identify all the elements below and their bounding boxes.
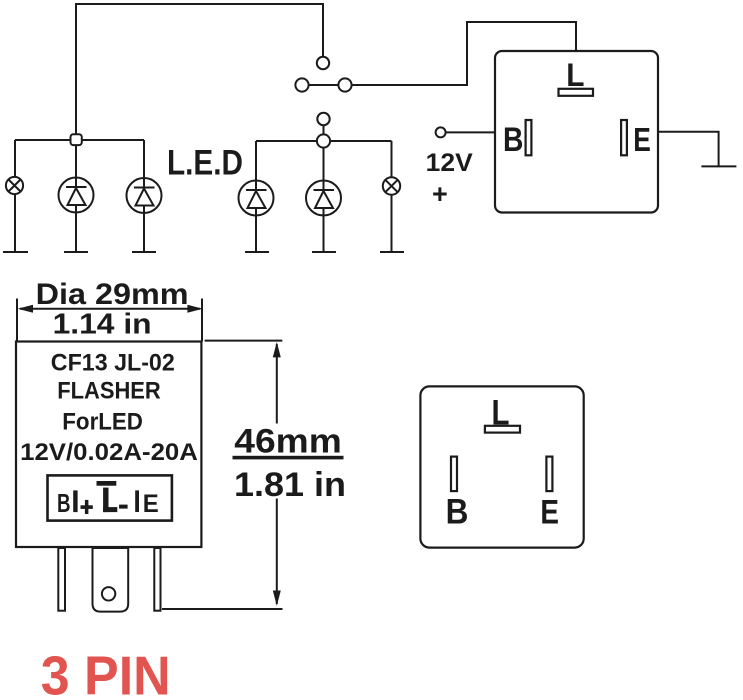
svg-text:E: E	[143, 490, 159, 518]
svg-text:L.E.D: L.E.D	[167, 144, 243, 183]
svg-text:E: E	[633, 121, 651, 158]
svg-text:CF13 JL-02: CF13 JL-02	[51, 350, 175, 377]
svg-text:1.14 in: 1.14 in	[53, 309, 152, 341]
svg-text:46mm: 46mm	[234, 423, 341, 461]
svg-text:+: +	[432, 179, 448, 209]
svg-text:3 PIN: 3 PIN	[41, 645, 171, 700]
svg-text:ForLED: ForLED	[62, 408, 143, 435]
svg-text:L: L	[492, 394, 510, 433]
svg-text:L: L	[566, 57, 584, 93]
svg-text:1.81 in: 1.81 in	[234, 466, 346, 504]
svg-text:FLASHER: FLASHER	[57, 378, 161, 405]
svg-text:12V: 12V	[426, 149, 473, 177]
svg-text:12V/0.02A-20A: 12V/0.02A-20A	[20, 439, 198, 466]
svg-text:B: B	[57, 488, 71, 518]
svg-text:Dia 29mm: Dia 29mm	[36, 278, 189, 311]
svg-text:B: B	[446, 493, 469, 532]
svg-text:E: E	[540, 494, 559, 532]
svg-text:B: B	[503, 121, 523, 159]
